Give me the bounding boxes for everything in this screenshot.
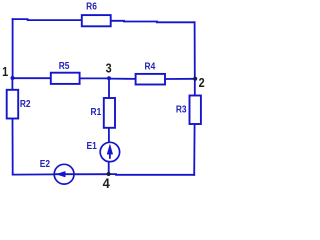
svg-text:2: 2 [199, 76, 205, 90]
source E1 [100, 142, 119, 161]
resistor R5 [51, 73, 80, 84]
svg-text:4: 4 [103, 176, 111, 192]
wire R4 to node 2 [165, 78, 195, 80]
wire top from node 1 corner to R6 left, with jogs [13, 19, 81, 20]
wire node 4 to bottom-right corner [109, 173, 195, 176]
wire R3 top to node 2 [194, 79, 196, 96]
E1 arrow [107, 144, 113, 158]
E2 internal wire [55, 173, 74, 175]
wire node1 to R2 top [11, 78, 13, 90]
resistor R3 [190, 96, 201, 125]
svg-text:R3: R3 [176, 103, 187, 115]
wire R1 bottom to E1 top [108, 128, 110, 143]
resistor R2 [7, 90, 19, 119]
source E2 [54, 164, 74, 184]
node 2 [193, 77, 197, 81]
svg-text:1: 1 [2, 65, 8, 79]
node 4 [107, 172, 111, 176]
wire R2 bottom to bottom-left corner [12, 119, 14, 175]
wire bottom left corner to E2 [13, 173, 55, 175]
wire right vertical top corner to node 2 [194, 22, 196, 79]
wire node 3 down to R1 [108, 78, 110, 98]
wire R6 right to top-right corner, with jogs [111, 21, 194, 23]
wire through E2 to node 4 [55, 173, 109, 175]
svg-text:E2: E2 [40, 158, 50, 170]
svg-text:3: 3 [106, 62, 112, 76]
resistor R1 [104, 98, 115, 128]
node 3 [107, 76, 111, 80]
svg-text:R6: R6 [86, 1, 97, 13]
svg-text:R5: R5 [59, 60, 70, 72]
wire node 3 to R4 [109, 78, 136, 80]
wire R5 to node 3 [80, 77, 109, 79]
wire left vertical node1 to top corner [12, 19, 14, 78]
resistor R4 [136, 74, 165, 85]
svg-text:R2: R2 [20, 98, 31, 110]
wire bottom-right corner up to R3 [193, 124, 195, 175]
svg-text:R1: R1 [91, 106, 102, 118]
wire E1 bottom to node 4 [108, 162, 110, 175]
node 1 [11, 76, 15, 80]
E2 arrow [56, 171, 65, 177]
wire node1 to R5 [13, 77, 51, 79]
resistor R6 [82, 15, 111, 26]
svg-text:E1: E1 [86, 140, 97, 152]
svg-text:R4: R4 [145, 61, 156, 73]
